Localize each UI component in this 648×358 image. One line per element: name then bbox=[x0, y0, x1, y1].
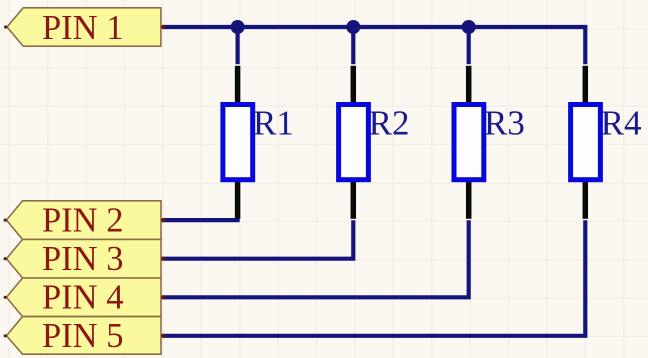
port PIN 3 banner bbox=[7, 239, 162, 278]
junction dot at R3 column on top bus bbox=[462, 20, 476, 34]
node: tip marker of port PIN4 bbox=[4, 296, 7, 299]
node: connection marker at PIN5 wire start bbox=[161, 334, 165, 338]
svg-text:PIN 4: PIN 4 bbox=[42, 279, 123, 317]
resistor R3 top pin lead bbox=[466, 66, 472, 103]
svg-text:PIN 1: PIN 1 bbox=[42, 9, 123, 47]
resistor R1 bottom pin lead bbox=[235, 182, 241, 219]
resistor R3 body bbox=[454, 105, 484, 180]
resistor R2 body bbox=[339, 105, 369, 180]
port PIN 1 banner bbox=[7, 8, 161, 46]
node: tip marker of port PIN5 bbox=[4, 334, 7, 337]
resistor R1 body bbox=[223, 105, 253, 180]
svg-text:R4: R4 bbox=[601, 103, 642, 142]
wire: drop from top bus to R2 top lead bbox=[351, 27, 355, 64]
wire: drop from top bus to R1 top lead bbox=[236, 27, 240, 64]
svg-text:PIN 2: PIN 2 bbox=[42, 202, 123, 240]
port PIN 2 banner bbox=[7, 201, 162, 240]
wire: net PIN4 from port PIN4 right then up to R3 bottom lead bbox=[162, 220, 469, 297]
node: connection marker at PIN2 wire start bbox=[161, 218, 165, 222]
node: tip marker of port PIN1 bbox=[4, 25, 7, 28]
wire: net PIN2 from port PIN2 to R1 bottom lead bbox=[162, 218, 240, 222]
port PIN 5 banner bbox=[7, 317, 162, 355]
junction dot at R1 column on top bus bbox=[231, 20, 245, 34]
svg-text:PIN 3: PIN 3 bbox=[42, 240, 123, 278]
svg-text:R2: R2 bbox=[369, 103, 410, 142]
node: tip marker of port PIN3 bbox=[4, 257, 7, 260]
resistor R3 bottom pin lead bbox=[466, 182, 472, 219]
node: connection marker at PIN4 wire start bbox=[161, 295, 165, 299]
node: connection marker at PIN1 wire start bbox=[161, 25, 165, 29]
wire: net PIN5 from port PIN5 right then up to R4 bottom lead bbox=[162, 220, 585, 336]
resistor R2 bottom pin lead bbox=[351, 182, 357, 219]
svg-text:R3: R3 bbox=[484, 103, 525, 142]
svg-text:R1: R1 bbox=[253, 103, 294, 142]
wire: net PIN3 from port PIN3 right then up to R2 bottom lead bbox=[162, 220, 353, 259]
resistor R4 bottom pin lead bbox=[583, 182, 589, 219]
resistor R1 top pin lead bbox=[235, 66, 241, 103]
resistor R4 body bbox=[571, 105, 601, 180]
wire: drop from top bus to R3 top lead bbox=[467, 27, 471, 64]
svg-text:PIN 5: PIN 5 bbox=[42, 317, 123, 355]
resistor R2 top pin lead bbox=[351, 66, 357, 103]
resistor R4 top pin lead bbox=[583, 66, 589, 103]
port PIN 4 banner bbox=[7, 278, 162, 317]
junction dot at R2 column on top bus bbox=[346, 20, 360, 34]
node: connection marker at PIN3 wire start bbox=[161, 257, 165, 261]
wire: net PIN1 top bus from port PIN1 right to corner above R4 bbox=[162, 27, 585, 64]
node: tip marker of port PIN2 bbox=[4, 219, 7, 222]
